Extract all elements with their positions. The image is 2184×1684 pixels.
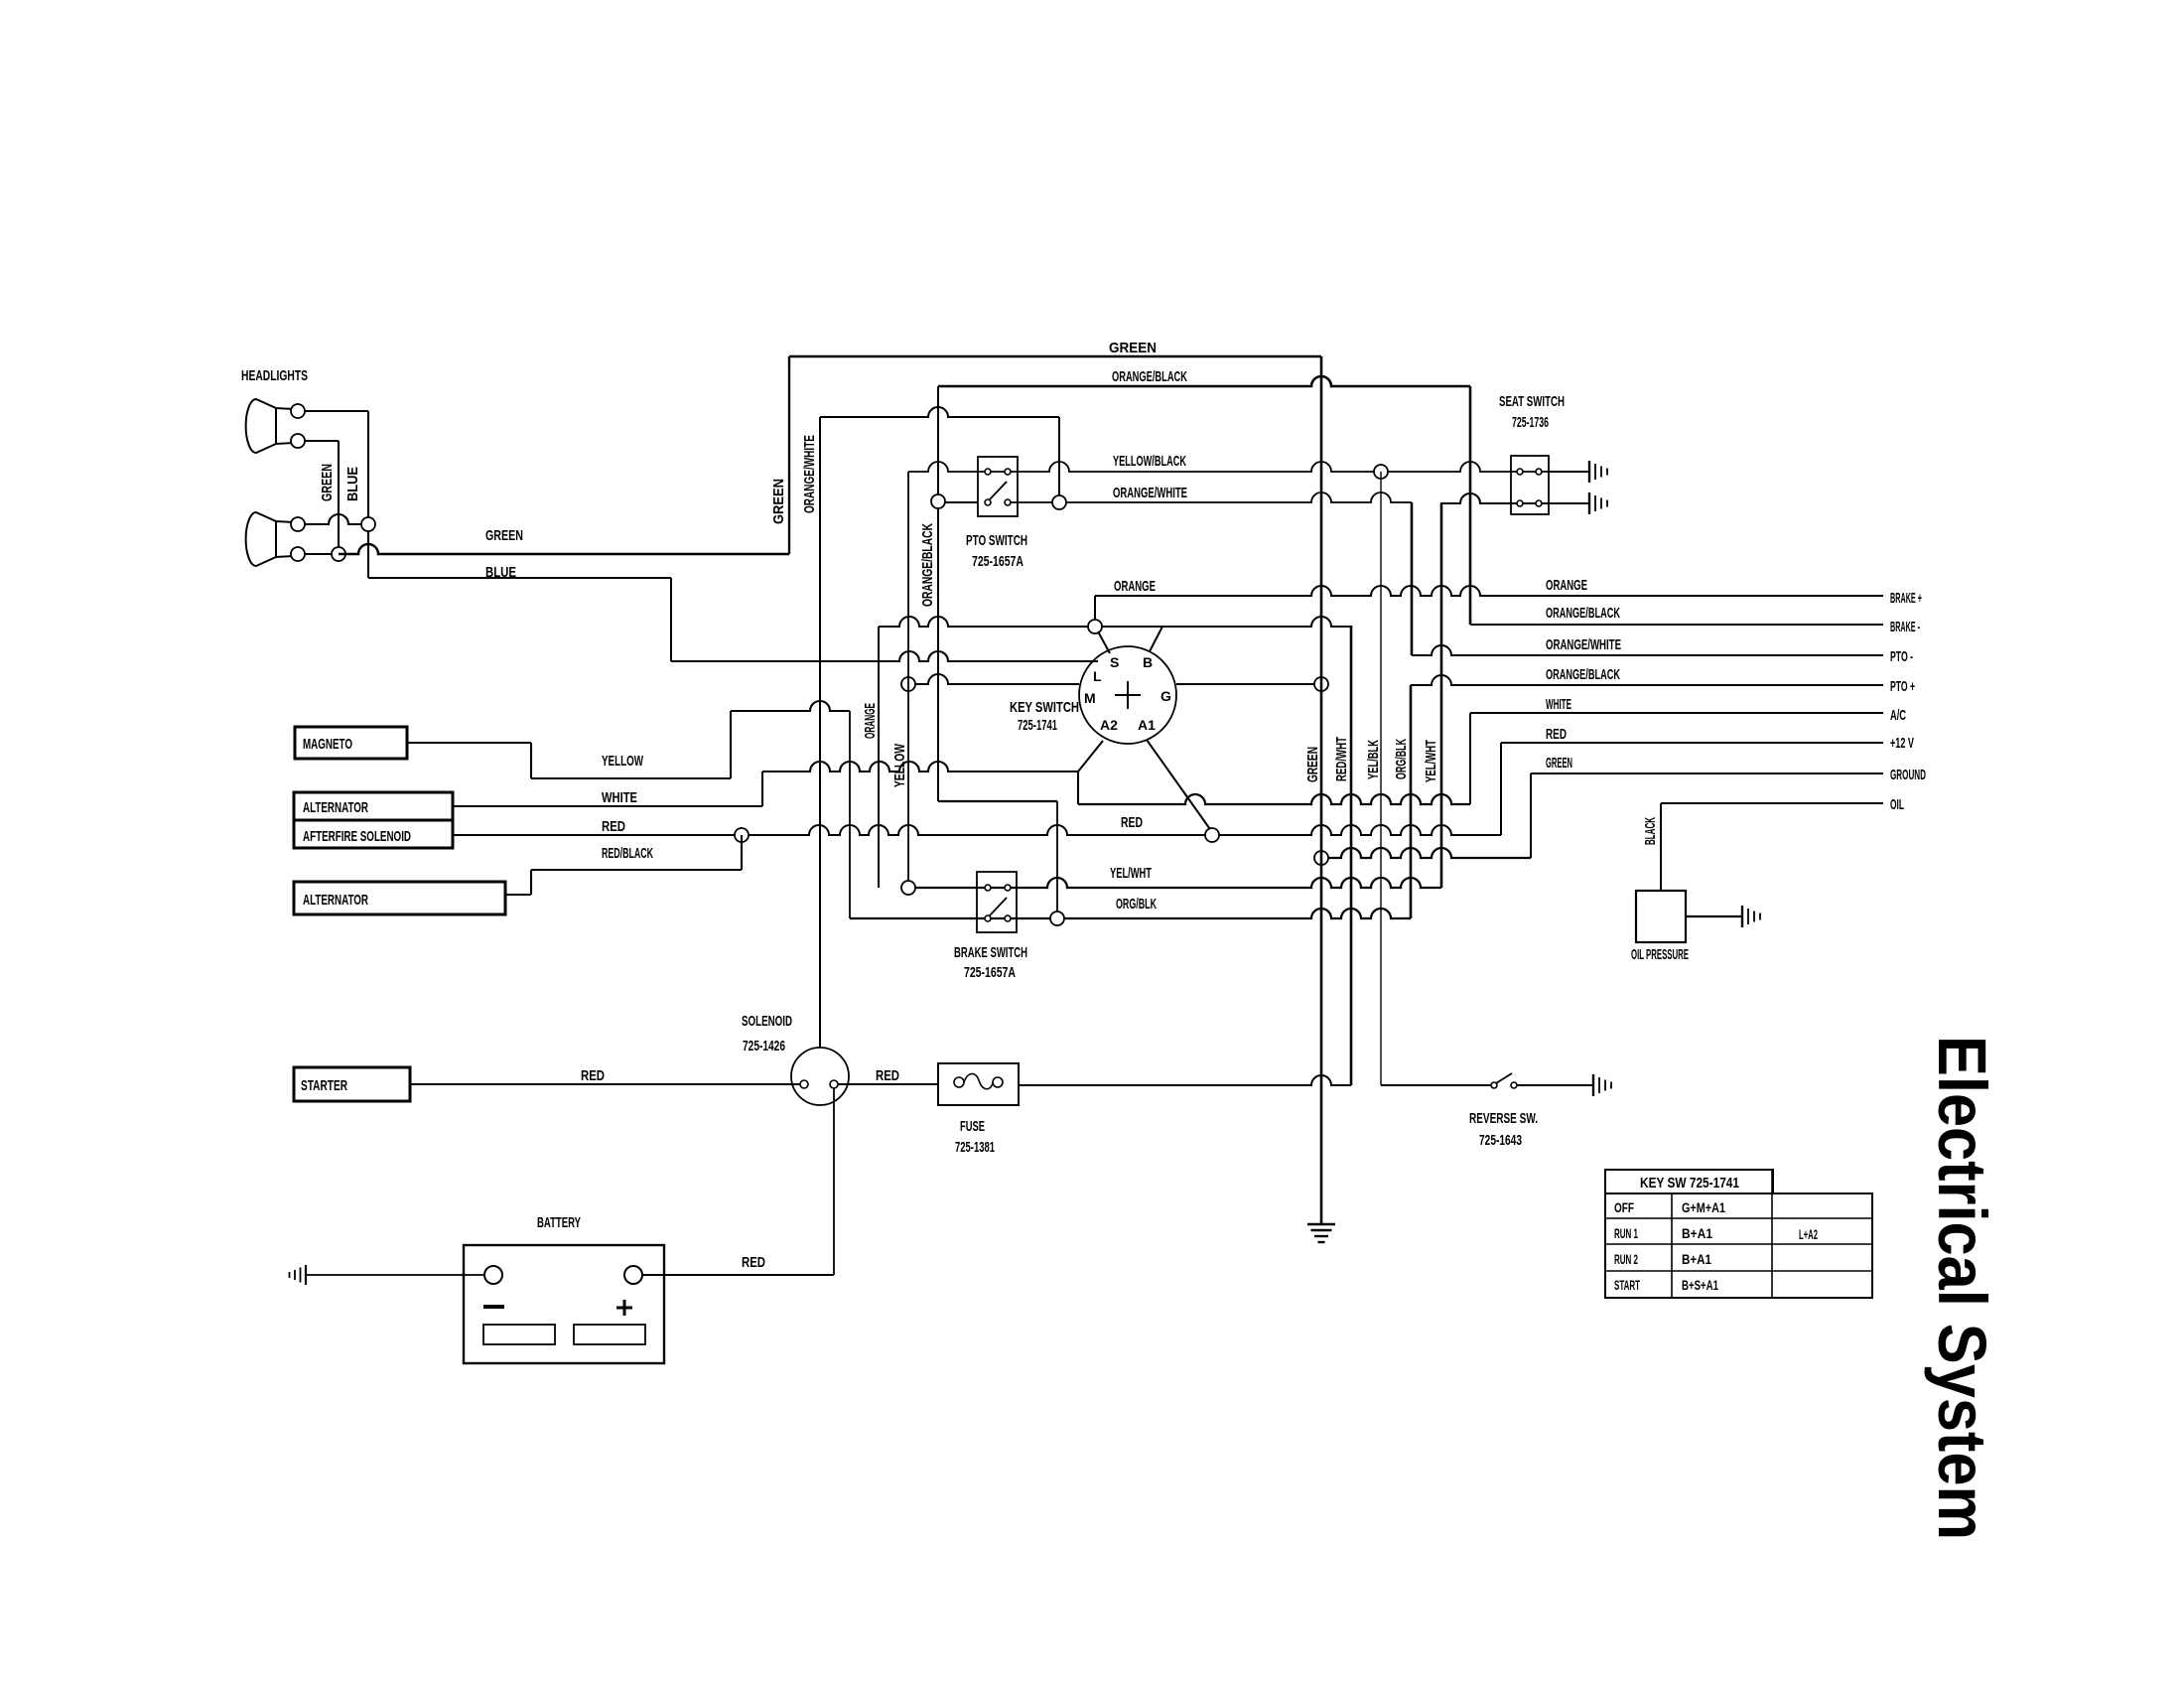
svg-text:PTO -: PTO - <box>1890 648 1913 665</box>
svg-text:ORANGE/BLACK: ORANGE/BLACK <box>1546 666 1620 683</box>
left box STARTER <box>294 1067 410 1101</box>
node M junction <box>901 677 915 691</box>
svg-text:ORANGE: ORANGE <box>1546 577 1587 594</box>
wire GREEN long <box>339 544 789 554</box>
battery terminal plus <box>624 1266 642 1284</box>
wire BRAKE- row <box>1470 624 1883 626</box>
svg-text:SEAT SWITCH: SEAT SWITCH <box>1499 393 1565 410</box>
key switch cross v <box>1127 681 1129 709</box>
seat switch box <box>1511 456 1549 514</box>
wire ORANGE row <box>1095 586 1883 596</box>
brake terminal 1 <box>985 885 991 891</box>
svg-text:+12 V: +12 V <box>1890 735 1914 752</box>
svg-text:ORANGE/WHITE: ORANGE/WHITE <box>1113 485 1187 501</box>
wire OIL row <box>1661 802 1883 804</box>
svg-text:B+A1: B+A1 <box>1682 1251 1711 1267</box>
svg-text:725-1426: 725-1426 <box>743 1038 785 1054</box>
svg-text:ALTERNATOR: ALTERNATOR <box>303 799 368 816</box>
svg-text:ORANGE/WHITE: ORANGE/WHITE <box>801 435 818 513</box>
wire WHITE right up <box>1469 713 1471 804</box>
key switch circle <box>1079 646 1176 744</box>
svg-text:GREEN: GREEN <box>1304 747 1321 782</box>
wire ALT2 out <box>505 894 531 896</box>
wire GREEN vertical headlights <box>338 441 340 554</box>
wire BLACK vertical <box>1660 803 1662 891</box>
wire RED right row <box>1501 742 1883 744</box>
wire 856 vertical <box>849 711 851 918</box>
svg-text:A2: A2 <box>1100 717 1118 733</box>
wire YELLOW row <box>531 777 731 779</box>
wire ORANGE/WHITE jog <box>820 407 1059 417</box>
table header box <box>1605 1170 1773 1193</box>
wire BLUE down <box>670 578 672 661</box>
svg-text:L: L <box>1093 668 1102 684</box>
svg-text:GROUND: GROUND <box>1890 767 1926 783</box>
svg-text:725-1657A: 725-1657A <box>964 964 1016 981</box>
svg-text:B+A1: B+A1 <box>1682 1225 1712 1241</box>
wire RED row <box>453 825 1501 835</box>
wire solenoid down <box>833 1088 835 1275</box>
reverse terminal 1 <box>1491 1082 1497 1088</box>
table row line 1 <box>1605 1217 1872 1219</box>
wire WHITE right row <box>1470 712 1883 714</box>
battery terminal minus <box>484 1266 502 1284</box>
wire white link down <box>1077 772 1079 804</box>
solenoid terminal 2 <box>830 1080 838 1088</box>
node RED junction key <box>1205 828 1219 842</box>
svg-text:YEL/WHT: YEL/WHT <box>1423 740 1439 782</box>
left box AFTERFIRE <box>294 820 453 848</box>
svg-text:725-1657A: 725-1657A <box>972 553 1024 570</box>
svg-text:PTO +: PTO + <box>1890 678 1915 695</box>
svg-text:ALTERNATOR: ALTERNATOR <box>303 892 368 909</box>
headlight lamp 1 <box>276 408 294 444</box>
wire 1067 vertical <box>1058 417 1060 502</box>
wire YEL/WHT row <box>908 878 1441 888</box>
ground battery <box>305 1265 307 1285</box>
reverse blade <box>1496 1073 1512 1083</box>
brake terminal 3 <box>985 915 991 921</box>
svg-text:GREEN: GREEN <box>1109 340 1157 356</box>
key A2 diagonal <box>1078 741 1103 772</box>
wire 1065 vertical <box>1056 801 1058 918</box>
wire L row <box>671 651 1098 661</box>
PTO blade <box>990 482 1007 499</box>
svg-text:SOLENOID: SOLENOID <box>742 1013 792 1030</box>
node RED junction left <box>735 828 749 842</box>
svg-text:RUN 1: RUN 1 <box>1614 1225 1638 1241</box>
node BLUE junction <box>361 517 375 531</box>
svg-text:BRAKE -: BRAKE - <box>1890 619 1920 635</box>
ground oil <box>1741 906 1743 927</box>
svg-text:725-1736: 725-1736 <box>1512 414 1549 431</box>
wire redblack step2 <box>530 870 532 895</box>
svg-text:OIL: OIL <box>1890 796 1904 813</box>
wire O/W PTO to 1422 <box>1008 492 1412 502</box>
wire REVERSE row left <box>1381 1084 1494 1086</box>
svg-text:RED: RED <box>876 1067 899 1084</box>
svg-text:ORANGE/WHITE: ORANGE/WHITE <box>1546 636 1621 653</box>
svg-text:A1: A1 <box>1138 717 1156 733</box>
svg-text:START: START <box>1614 1277 1640 1293</box>
solenoid terminal 1 <box>800 1080 808 1088</box>
svg-text:FUSE: FUSE <box>960 1118 985 1135</box>
ground seat bottom <box>1588 492 1590 514</box>
svg-text:YELLOW: YELLOW <box>602 753 644 770</box>
wire GREEN main vertical <box>1320 356 1323 1224</box>
svg-text:GREEN: GREEN <box>770 479 787 524</box>
wire ALT WHITE <box>453 805 762 807</box>
fuse element <box>964 1073 993 1088</box>
svg-text:G: G <box>1160 688 1171 704</box>
ground reverse <box>1592 1074 1594 1096</box>
reverse terminal 2 <box>1511 1082 1517 1088</box>
svg-text:RED/BLACK: RED/BLACK <box>602 845 653 862</box>
svg-text:YELLOW: YELLOW <box>891 743 908 787</box>
wire oil ground link <box>1686 915 1742 917</box>
seat terminal 4 <box>1536 500 1542 506</box>
wire battery RED <box>642 1274 834 1276</box>
wire redblack step1 <box>741 835 743 870</box>
svg-text:ORANGE/BLACK: ORANGE/BLACK <box>919 523 936 607</box>
node YEL/WHT junction <box>901 881 915 895</box>
svg-text:BRAKE +: BRAKE + <box>1890 590 1922 607</box>
wire yellow step1 <box>530 743 532 778</box>
svg-text:STARTER: STARTER <box>301 1077 347 1094</box>
svg-text:ORANGE: ORANGE <box>1114 578 1156 595</box>
svg-text:YEL/BLK: YEL/BLK <box>1365 740 1382 779</box>
wire WHITE A2 row <box>762 762 1078 772</box>
wire RED right up <box>1500 743 1502 835</box>
wire GREEN top row <box>789 355 1321 358</box>
seat terminal 1 <box>1517 469 1523 475</box>
table body outline <box>1605 1193 1872 1298</box>
svg-text:RED: RED <box>1546 726 1567 743</box>
wire M row <box>908 674 1079 684</box>
node O/W junction <box>931 494 945 508</box>
svg-text:BLUE: BLUE <box>344 467 361 501</box>
svg-text:KEY SW 725-1741: KEY SW 725-1741 <box>1640 1175 1739 1192</box>
wire YEL/WHT vertical <box>1440 503 1443 888</box>
svg-text:ORANGE/BLACK: ORANGE/BLACK <box>1546 605 1620 622</box>
wire O/W right seg <box>1440 493 1549 503</box>
solenoid circle <box>791 1048 849 1105</box>
wire yellow step2 <box>730 711 732 778</box>
svg-text:RUN 2: RUN 2 <box>1614 1251 1638 1267</box>
brake switch box <box>977 872 1017 932</box>
svg-text:REVERSE SW.: REVERSE SW. <box>1469 1110 1538 1127</box>
svg-text:BRAKE SWITCH: BRAKE SWITCH <box>954 944 1027 961</box>
wire ORANGE down vert <box>878 627 880 888</box>
wire ORG/BLK row <box>850 909 1411 918</box>
battery plus sign v <box>623 1300 626 1316</box>
wire lamp2-bottom to junction <box>305 553 339 555</box>
wire yellow jog <box>731 701 850 711</box>
svg-text:725-1741: 725-1741 <box>1018 717 1057 734</box>
wire BLUE long <box>368 577 671 579</box>
wire lamp2-top to junction <box>305 514 368 524</box>
svg-text:WHITE: WHITE <box>602 789 637 806</box>
svg-text:Electrical System: Electrical System <box>1924 1036 2000 1540</box>
svg-text:ORANGE/BLACK: ORANGE/BLACK <box>1112 368 1187 385</box>
svg-text:KEY SWITCH: KEY SWITCH <box>1010 699 1079 716</box>
wire seat ground top <box>1549 471 1589 473</box>
svg-text:GREEN: GREEN <box>1546 755 1572 772</box>
svg-text:RED: RED <box>742 1254 765 1271</box>
wire O/B right vertical <box>1469 386 1472 625</box>
svg-text:725-1381: 725-1381 <box>955 1139 995 1156</box>
headlight lamp 2 <box>276 521 294 557</box>
ground seat top <box>1588 461 1590 483</box>
svg-text:725-1643: 725-1643 <box>1479 1132 1522 1149</box>
svg-text:ORG/BLK: ORG/BLK <box>1116 896 1157 912</box>
PTO terminal 2 <box>1005 469 1011 475</box>
wire PTO- row <box>1412 645 1883 655</box>
table col line 1 <box>1671 1193 1673 1298</box>
brake terminal 4 <box>1005 915 1011 921</box>
svg-text:A/C: A/C <box>1890 707 1906 724</box>
wire battery minus <box>306 1274 484 1276</box>
svg-text:MAGNETO: MAGNETO <box>303 736 352 753</box>
wire ORANGE/BLACK vertical <box>937 386 939 801</box>
wire seat ground bottom <box>1549 502 1589 504</box>
PTO terminal 3 <box>985 499 991 505</box>
brake blade <box>990 898 1007 915</box>
svg-text:ORANGE: ORANGE <box>862 703 879 739</box>
node YEL/BLK junction <box>1374 465 1388 479</box>
battery minus sign <box>483 1305 504 1309</box>
svg-text:GREEN: GREEN <box>319 464 336 501</box>
fuse box <box>938 1063 1019 1105</box>
left box MAGNETO <box>295 727 407 759</box>
node GREEN junction <box>332 547 345 561</box>
svg-text:WHITE: WHITE <box>1546 696 1571 713</box>
wire O/W to PTO <box>938 501 978 503</box>
node ORANGE junction <box>1088 620 1102 633</box>
wire GREEN branch row <box>1321 848 1531 858</box>
svg-text:GREEN: GREEN <box>485 527 523 544</box>
svg-text:BLACK: BLACK <box>1642 817 1659 845</box>
svg-text:RED: RED <box>1121 814 1143 831</box>
key S diagonal <box>1098 631 1110 653</box>
wire YELLOW/BLACK row <box>908 462 1549 472</box>
svg-text:L+A2: L+A2 <box>1799 1226 1818 1242</box>
PTO switch box <box>978 457 1018 516</box>
svg-text:M: M <box>1084 690 1096 706</box>
svg-text:RED: RED <box>602 818 625 835</box>
node G junction <box>1314 677 1328 691</box>
wire STARTER to solenoid <box>410 1083 800 1085</box>
wire RED/WHT vertical <box>1350 626 1353 1085</box>
table col line 2 <box>1771 1170 1773 1298</box>
svg-text:BLUE: BLUE <box>485 564 516 581</box>
wire O/B jog <box>938 800 1057 802</box>
wire white step <box>761 772 763 806</box>
node GREEN branch junction <box>1314 851 1328 865</box>
fuse terminal 1 <box>954 1077 964 1087</box>
left box ALTERNATOR2 <box>294 882 505 914</box>
svg-text:B: B <box>1143 654 1153 670</box>
wire B row <box>879 617 1351 627</box>
svg-text:YELLOW/BLACK: YELLOW/BLACK <box>1113 453 1186 470</box>
svg-text:S: S <box>1110 654 1119 670</box>
svg-text:AFTERFIRE SOLENOID: AFTERFIRE SOLENOID <box>303 828 411 845</box>
key B diagonal <box>1150 627 1162 651</box>
wire GREEN up <box>788 356 790 554</box>
wire ORANGE/BLACK top row <box>938 376 1470 386</box>
seat terminal 2 <box>1536 469 1542 475</box>
left box ALTERNATOR1 <box>294 792 453 820</box>
wire GROUND row <box>1531 772 1883 774</box>
wire ORANGE/WHITE vertical <box>819 417 821 1048</box>
svg-text:OIL PRESSURE: OIL PRESSURE <box>1631 946 1689 963</box>
fuse terminal 2 <box>993 1077 1003 1087</box>
ground center <box>1307 1223 1335 1225</box>
svg-text:G+M+A1: G+M+A1 <box>1682 1199 1725 1215</box>
svg-text:OFF: OFF <box>1614 1199 1634 1215</box>
svg-text:ORG/BLK: ORG/BLK <box>1393 739 1410 779</box>
wire YELLOW vertical <box>907 472 909 888</box>
wire FUSE out <box>1019 1075 1351 1085</box>
brake terminal 2 <box>1005 885 1011 891</box>
seat terminal 3 <box>1517 500 1523 506</box>
svg-text:BATTERY: BATTERY <box>537 1214 581 1231</box>
svg-text:PTO SWITCH: PTO SWITCH <box>966 532 1027 549</box>
wire RED/BLACK row <box>531 869 742 871</box>
wire ORG/BLK bottom vertical <box>1410 685 1413 918</box>
oil pressure box <box>1636 891 1686 942</box>
PTO terminal 1 <box>985 469 991 475</box>
wire solenoid to fuse <box>838 1083 938 1085</box>
table row line 3 <box>1605 1270 1872 1272</box>
wire GREEN right up <box>1530 773 1532 858</box>
wire PTO+ row <box>1411 675 1883 685</box>
wire REVERSE row right <box>1517 1084 1593 1086</box>
node O/W junction2 <box>1052 495 1066 509</box>
key A1 diagonal <box>1147 740 1212 832</box>
table row line 2 <box>1605 1243 1872 1245</box>
wire lamp1-bottom to GREEN vertical <box>305 440 339 442</box>
svg-text:HEADLIGHTS: HEADLIGHTS <box>241 367 308 384</box>
wire WHITE mid row <box>1078 794 1470 804</box>
node ORG/BLK junction <box>1050 912 1064 925</box>
svg-text:YEL/WHT: YEL/WHT <box>1110 865 1152 882</box>
wire ORG/BLK top vertical <box>1411 502 1414 655</box>
svg-text:B+S+A1: B+S+A1 <box>1682 1277 1718 1293</box>
PTO terminal 4 <box>1005 499 1011 505</box>
battery cell 2 <box>574 1325 645 1344</box>
wire BLUE vertical <box>367 411 369 578</box>
battery plus sign h <box>616 1307 632 1310</box>
wire MAGNETO out <box>408 742 531 744</box>
battery box <box>464 1245 664 1363</box>
svg-text:RED: RED <box>581 1067 605 1084</box>
wire G row <box>1176 683 1321 685</box>
battery cell 1 <box>483 1325 555 1344</box>
wire YEL/BLK vertical <box>1380 472 1382 1085</box>
key switch cross h <box>1115 694 1141 696</box>
wire lamp1-top to BLUE vertical <box>305 410 368 412</box>
svg-text:RED/WHT: RED/WHT <box>1333 737 1350 781</box>
wire ORANGE feed vert <box>1094 596 1096 627</box>
